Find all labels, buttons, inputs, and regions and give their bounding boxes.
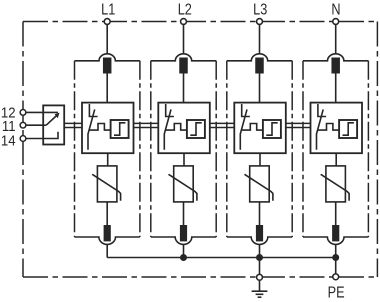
varistor L1 [97,166,117,202]
triggered spark gap unit box L2 [158,103,210,154]
wire varistor to bottom disconnector L1 [106,202,108,225]
bus junction dot L3 [256,254,263,261]
spark gap electrodes (switch symbol) L1 [89,104,97,117]
wire L1 terminal to module [106,25,108,54]
terminal 11 [20,122,26,128]
varistor L2 [174,166,194,202]
trigger device box L1 [111,120,129,138]
svg-text:PE: PE [328,284,345,301]
step function symbol L2 [190,123,201,135]
trigger pulse line L1 [89,124,111,131]
bus junction dot N [332,254,339,261]
terminal 12 [20,110,26,116]
triggered spark gap unit box N [311,103,363,154]
wire spark gap to varistor L1 [107,153,109,166]
triggered spark gap unit box L3 [234,103,285,154]
spark gap electrodes (switch symbol) L3 [242,104,250,117]
trigger device box L2 [187,120,205,138]
PE terminal [333,274,339,280]
spark gap electrodes (switch symbol) N [318,104,326,117]
wire spark gap to varistor L3 [259,153,261,166]
step function symbol L3 [266,123,277,135]
protection module boundary N (dash-dot box with plug-in arcs) [303,54,368,61]
thermal disconnector (top) L2 [179,58,188,74]
disconnector (bottom) L1 [104,225,111,241]
wire module to PE bus L3 [259,244,261,257]
earth ground symbol [252,281,268,297]
spark gap electrodes (switch symbol) L2 [166,104,174,117]
varistor L3 [250,166,270,202]
wire L2 terminal to module [183,25,185,54]
terminal L3 [257,19,263,25]
thermal disconnector (top) L1 [103,58,112,74]
wire disconnector to spark gap N [335,74,337,103]
terminal 14 [20,136,26,142]
disconnector (bottom) L2 [180,225,187,241]
bus junction dot L2 [180,254,187,261]
varistor N [326,166,346,202]
protection module boundary L1 (dash-dot box with plug-in arcs) [75,54,140,61]
mechanical linkage double lines between units [64,123,310,127]
svg-text:L3: L3 [253,1,267,18]
wire module to PE bus L2 [183,244,185,257]
wire module to PE bus N [335,244,337,257]
PE bus wire [107,257,336,259]
disconnector (bottom) L3 [256,225,263,241]
triggered spark gap unit box L1 [82,103,134,154]
thermal disconnector (top) L3 [255,58,264,74]
wire contact 14 with NO contact L [26,132,58,139]
wire spark gap to varistor N [335,153,337,166]
protection module boundary L2 (dash-dot box with plug-in arcs) [151,54,216,61]
wire module to PE bus L1 [106,244,108,257]
step function symbol N [343,123,354,135]
disconnector (bottom) N [332,225,339,241]
wire bus to earth terminal [259,258,261,275]
wire varistor to bottom disconnector L3 [259,202,261,225]
svg-text:L2: L2 [178,1,192,18]
wire contact 12 [26,111,58,113]
device enclosure border (dash-dot) [23,22,377,278]
wire L3 terminal to module [259,25,261,54]
trigger pulse line N [317,124,339,131]
trigger pulse line L2 [165,124,187,131]
terminal N [333,19,339,25]
trigger device box N [339,120,357,138]
terminal L2 [181,19,187,25]
changeover blade with arrow [46,115,57,125]
wire disconnector to spark gap L3 [259,74,261,103]
earth terminal [257,274,263,280]
step function symbol L1 [114,123,125,135]
svg-text:N: N [331,1,340,18]
wire contact 11 [26,124,46,126]
wire varistor to bottom disconnector N [335,202,337,225]
trigger pulse line L3 [241,124,263,131]
wire N terminal to module [335,25,337,54]
svg-text:L1: L1 [101,1,115,18]
wire varistor to bottom disconnector L2 [183,202,185,225]
wire disconnector to spark gap L2 [183,74,185,103]
remote signalling changeover contact box [43,105,64,144]
wire bus to PE terminal [335,258,337,274]
thermal disconnector (top) N [331,58,340,74]
protection module boundary L3 (dash-dot box with plug-in arcs) [227,54,292,61]
trigger device box L3 [263,120,281,138]
wire spark gap to varistor L2 [183,153,185,166]
terminal L1 [104,19,110,25]
wire disconnector to spark gap L1 [106,74,108,103]
svg-text:14: 14 [1,132,16,149]
